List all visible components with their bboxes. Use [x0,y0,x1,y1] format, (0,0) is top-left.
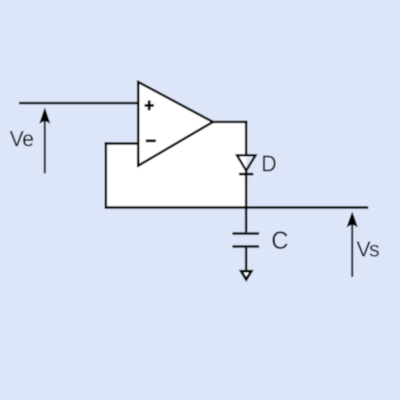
wire: feedback left vertical [105,142,107,207]
op-amp plus sign [145,100,154,110]
Ve source arrow [39,107,50,173]
capacitor C [232,208,259,272]
Vs output arrow [347,211,358,277]
feedback loop white region [106,122,246,208]
label Ve [10,131,33,146]
ground arrow [241,271,251,279]
wire: bottom output rail [105,206,369,208]
label C [273,231,288,249]
wire: op-amp output [212,121,247,123]
wire: input to + terminal [19,102,138,104]
wire: diode cathode to rail [245,171,247,208]
label D [263,156,276,172]
diode D [237,155,256,174]
op-amp minus sign [146,139,156,142]
wire: down to diode anode [245,121,247,156]
wire: feedback to - terminal [105,142,139,144]
label Vs [357,242,379,257]
op-amp U1 [138,82,213,166]
